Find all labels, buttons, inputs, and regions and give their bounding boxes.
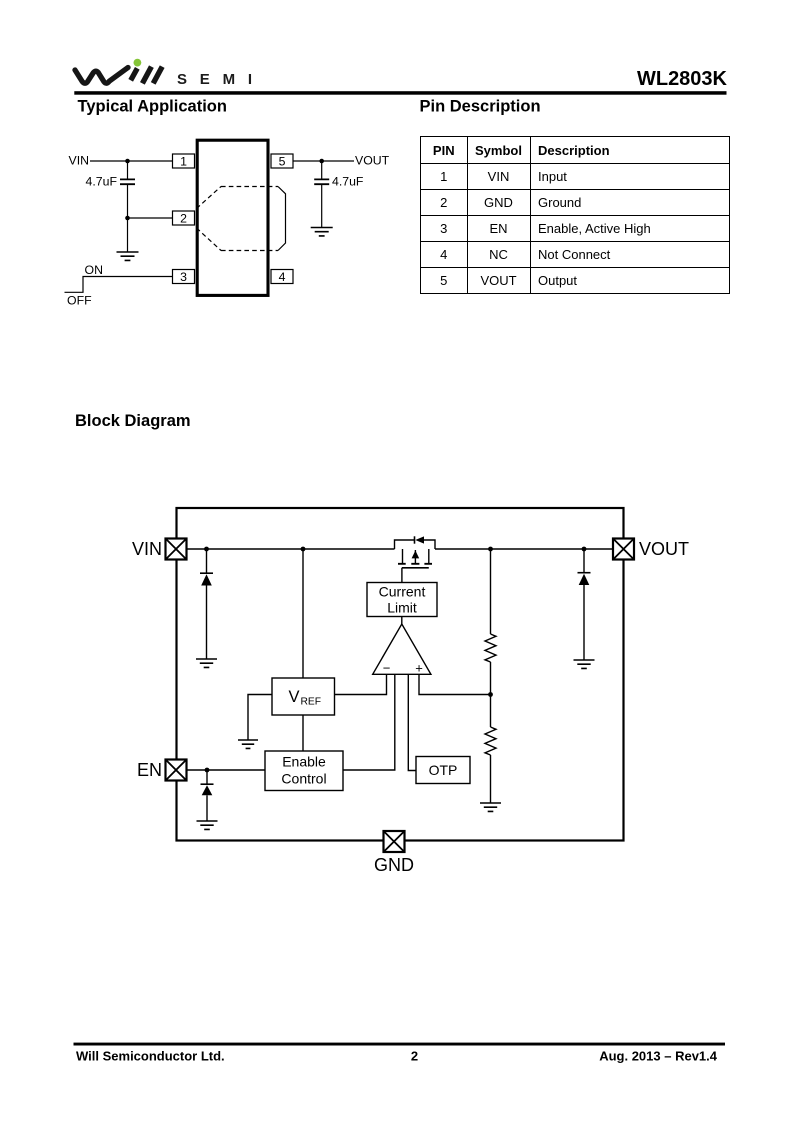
svg-text:WL2803K: WL2803K [637,68,728,90]
svg-text:VOUT: VOUT [639,539,689,559]
body diode bar [414,536,416,543]
logo slash i [131,68,138,80]
diode D2 lead [583,549,585,573]
wire junction to R2 [490,695,492,728]
block Enable Control [265,751,343,791]
junction D2 [582,547,587,552]
block OTP [416,757,470,784]
body diode arrow [415,536,424,543]
wire pin5 to VOUT [293,160,354,162]
dashed internal bottom diagonal [197,228,222,251]
svg-text:Current: Current [379,583,426,599]
ground G6 [480,803,501,811]
Q1 channel bars [398,563,432,565]
svg-text:4: 4 [279,270,286,284]
pin description table [420,136,730,294]
junction VIN-cap [125,159,130,164]
block VREF [272,678,335,715]
wire OTP to driver [408,674,416,770]
footer rule [74,1043,726,1046]
logo slash l1 [142,67,151,84]
resistor R2 [485,727,496,755]
pin 2 box [173,211,195,225]
svg-text:Enable: Enable [282,754,326,770]
diode D1 [200,573,213,585]
package tab outline [278,187,286,251]
ground G4 [238,740,258,748]
wire cap2 to ground [321,184,323,227]
svg-text:−: − [383,661,391,676]
capacitor C2 lead top [321,161,323,179]
wire R2 to ground [490,755,492,803]
diode D3 [201,784,214,795]
capacitor C2 plates [314,179,329,184]
pin 5 box [271,154,293,168]
svg-text:V: V [289,688,300,706]
ground G7 [574,660,595,668]
diode D1 lead [206,549,208,573]
Q1 gate bar [402,567,429,569]
wire enable to driver [343,674,395,770]
dashed internal bottom horizontal [221,250,278,252]
svg-text:ON: ON [85,263,103,277]
pin 4 box [271,270,293,284]
terminal GND [384,831,405,852]
svg-text:Will Semiconductor Ltd.: Will Semiconductor Ltd. [76,1049,225,1064]
top rail wire left [187,548,395,550]
resistor R1 [485,634,496,662]
Q1 body arrow [412,550,420,564]
terminal VOUT [613,539,634,560]
header rule [74,91,726,95]
Q1 drain stub [428,549,430,563]
diode D2 [578,573,591,585]
svg-text:VIN: VIN [69,153,90,167]
junction cap-pin2 [125,216,130,221]
capacitor C1 lead top [127,161,129,179]
wire divider top [490,549,492,634]
logo dot (green) [134,59,142,67]
svg-text:Control: Control [281,771,326,787]
transistor Q1 body loop [395,540,436,549]
capacitor C1 plates [120,179,135,184]
block Current Limit [367,583,437,617]
pin 1 box [173,154,195,168]
IC body U1 [197,140,268,295]
svg-text:4.7uF: 4.7uF [86,174,118,188]
svg-text:SEMI: SEMI [177,71,265,88]
svg-text:3: 3 [180,270,187,284]
wire EN to enable control [187,769,266,771]
svg-text:5: 5 [279,154,286,168]
op-amp U2 [373,624,431,676]
top rail wire right [435,548,613,550]
ground G3 [196,659,217,667]
pin 3 box [173,270,195,284]
logo wave W [75,68,128,84]
svg-text:2: 2 [180,211,187,225]
wire VREF riser [302,549,304,678]
wire inverting input to VREF [335,674,387,694]
svg-text:OFF: OFF [67,293,92,307]
wire VIN to pin1 [90,160,173,162]
svg-text:EN: EN [137,760,162,780]
wire cap to ground [127,184,129,252]
svg-text:Limit: Limit [387,599,417,615]
diode D3 lead [206,770,208,784]
terminal VIN [166,539,187,560]
block outer boundary [177,508,624,841]
ground G2 [311,228,333,236]
enable step waveform [65,277,173,293]
svg-text:Block Diagram: Block Diagram [75,412,191,430]
svg-text:VOUT: VOUT [355,153,390,167]
Q1 source stub [402,549,404,563]
dashed internal top diagonal [197,187,222,209]
ground G1 [117,252,139,260]
wire junction to pin2 [128,217,173,219]
diode D2 lead bottom [583,585,585,660]
svg-text:VIN: VIN [132,539,162,559]
svg-text:2: 2 [411,1049,418,1064]
svg-text:GND: GND [374,855,414,875]
terminal EN [166,760,187,781]
wire current limit to opamp [401,617,403,625]
dashed internal top horizontal [221,186,278,188]
junction VOUT-cap [319,159,324,164]
Q1 gate lead [401,568,403,583]
svg-text:4.7uF: 4.7uF [332,174,364,188]
wire VREF to ground [248,695,272,741]
junction VREF riser [301,547,306,552]
svg-text:OTP: OTP [429,762,458,778]
diode D1 lead bottom [206,586,208,660]
svg-text:1: 1 [180,154,187,168]
wire VREF to enable control [302,715,304,751]
svg-text:Typical Application: Typical Application [78,98,227,116]
svg-text:+: + [415,661,423,676]
wire R1 to junction [490,662,492,695]
svg-text:REF: REF [301,696,322,707]
diode D3 lead bottom [206,795,208,821]
junction EN diode [205,768,210,773]
logo slash l2 [153,67,162,84]
ground G5 [197,821,218,829]
wire noninverting input to divider [419,674,491,694]
svg-text:Pin Description: Pin Description [420,98,541,116]
svg-text:Aug. 2013 – Rev1.4: Aug. 2013 – Rev1.4 [599,1049,718,1064]
junction divider top [488,547,493,552]
junction D1 [204,547,209,552]
junction feedback node [488,692,493,697]
